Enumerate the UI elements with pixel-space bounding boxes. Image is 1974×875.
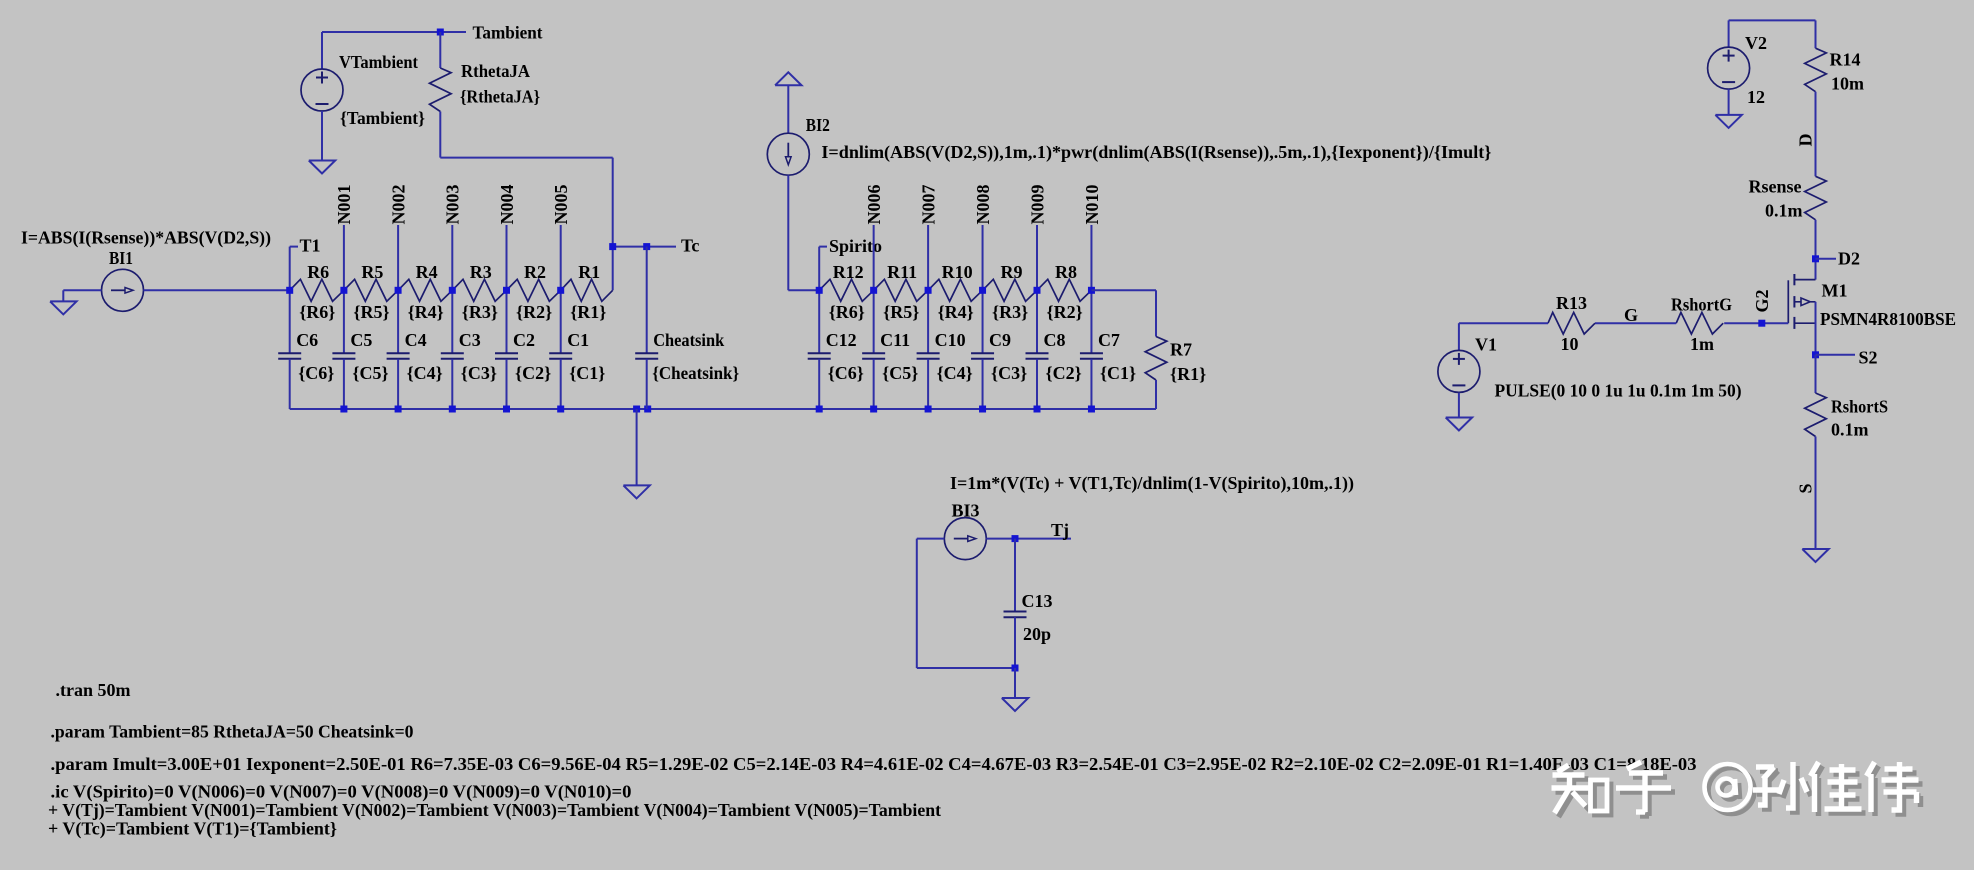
transistor M1 body arrow — [1794, 301, 1801, 303]
node junction row 0 — [286, 287, 293, 294]
svg-text:R6: R6 — [307, 262, 329, 282]
wire column C1 upper — [560, 290, 562, 353]
wire Spirito stub — [818, 247, 820, 291]
svg-text:{C1}: {C1} — [1100, 363, 1136, 383]
node junction row 1 — [340, 287, 347, 294]
capacitor C3 — [441, 352, 464, 354]
wire column C7 lower — [1090, 359, 1092, 409]
capacitor C10 — [917, 352, 940, 354]
wire BI3 left loop — [917, 538, 945, 540]
svg-text:{C4}: {C4} — [937, 363, 973, 383]
svg-text:N008: N008 — [973, 185, 993, 225]
wire stub node N004 — [506, 225, 508, 290]
current source BI2 — [767, 133, 809, 175]
transistor M1 channel segments — [1793, 274, 1795, 285]
svg-text:C10: C10 — [935, 330, 966, 350]
svg-text:R14: R14 — [1830, 50, 1861, 70]
wire ground stub below bus — [636, 409, 638, 485]
wire BI2 bottom lead to ladder 2 — [787, 175, 789, 290]
wire C13 top lead — [1014, 539, 1016, 612]
svg-text:C13: C13 — [1022, 591, 1053, 611]
svg-text:R8: R8 — [1055, 262, 1077, 282]
wire column C4 upper — [397, 290, 399, 353]
node junction row ladder2 — [1088, 287, 1095, 294]
node G2 junction — [1758, 320, 1765, 327]
resistor RthetaJA — [430, 68, 452, 112]
svg-text:VTambient: VTambient — [339, 52, 418, 72]
resistor R10 — [928, 279, 982, 301]
wire stub node N001 — [343, 225, 345, 290]
resistor Rsense — [1805, 176, 1827, 220]
voltage source VTambient — [301, 69, 343, 111]
svg-text:R2: R2 — [524, 262, 546, 282]
transistor M1 drain bar — [1794, 279, 1815, 281]
wire column C11 lower — [873, 359, 875, 409]
wire VTambient up lead — [321, 32, 323, 69]
wire column C8 lower — [1036, 359, 1038, 409]
wire column C9 upper — [982, 290, 984, 353]
svg-text:{Cheatsink}: {Cheatsink} — [652, 363, 739, 383]
svg-text:V1: V1 — [1475, 335, 1497, 355]
wire S2 stub — [1816, 354, 1856, 356]
ground below V2 — [1715, 115, 1741, 128]
svg-text:10m: 10m — [1831, 74, 1864, 94]
capacitor C9 — [971, 352, 994, 354]
ground below VTambient — [309, 161, 335, 174]
wire R14 top lead — [1815, 20, 1817, 48]
node junction at Cheatsink column — [643, 243, 650, 250]
wire column C12 upper — [818, 290, 820, 353]
svg-text:0.1m: 0.1m — [1765, 201, 1803, 221]
wire V1 to ground — [1458, 393, 1460, 418]
svg-text:N003: N003 — [443, 185, 463, 225]
svg-text:C1: C1 — [567, 330, 589, 350]
svg-text:{R3}: {R3} — [462, 302, 498, 322]
svg-text:N009: N009 — [1027, 185, 1047, 225]
node junction row 2 — [395, 287, 402, 294]
wire Tc row — [613, 246, 676, 248]
wire net D between R14 and Rsense — [1815, 92, 1817, 177]
svg-text:C2: C2 — [513, 330, 535, 350]
wire column C3 lower — [451, 359, 453, 409]
node junction bus ladder2 — [1034, 406, 1041, 413]
node junction bus ground tap — [633, 406, 640, 413]
wire stub node N010 — [1090, 225, 1092, 290]
svg-text:{C3}: {C3} — [991, 363, 1027, 383]
wire net S below RshortS — [1815, 437, 1817, 550]
svg-text:I=dnlim(ABS(V(D2,S)),1m,.1)*pw: I=dnlim(ABS(V(D2,S)),1m,.1)*pwr(dnlim(AB… — [821, 142, 1491, 163]
svg-text:M1: M1 — [1822, 281, 1848, 301]
svg-text:{R5}: {R5} — [883, 302, 919, 322]
node Tambient junction — [437, 29, 444, 36]
resistor R5 — [344, 279, 398, 301]
svg-text:C12: C12 — [826, 330, 857, 350]
svg-text:{R2}: {R2} — [516, 302, 552, 322]
wire stub node N009 — [1036, 225, 1038, 290]
wire column C8 upper — [1036, 290, 1038, 353]
wire stub node N002 — [397, 225, 399, 290]
svg-text:{R6}: {R6} — [299, 302, 335, 322]
svg-text:{R5}: {R5} — [353, 302, 389, 322]
svg-text:BI1: BI1 — [109, 248, 133, 268]
wire ground stub below C13 — [1014, 668, 1016, 698]
svg-text:C11: C11 — [880, 330, 910, 350]
wire stub node N007 — [927, 225, 929, 290]
svg-text:PSMN4R8100BSE: PSMN4R8100BSE — [1820, 309, 1956, 329]
node junction row ladder2 — [816, 287, 823, 294]
svg-text:R3: R3 — [470, 262, 492, 282]
transistor M1 source bar — [1794, 322, 1815, 324]
wire column C3 upper — [451, 290, 453, 353]
svg-text:C4: C4 — [405, 330, 427, 350]
node junction row 4 — [503, 287, 510, 294]
node junction bus — [395, 406, 402, 413]
capacitor C5 — [332, 352, 355, 354]
svg-text:RthetaJA: RthetaJA — [461, 61, 530, 81]
ground below bus — [623, 485, 649, 498]
node D2 junction — [1812, 255, 1819, 262]
capacitor C4 — [387, 352, 410, 354]
wire VTambient top rail to Tambient node — [322, 31, 466, 33]
svg-text:.param Tambient=85 RthetaJA=50: .param Tambient=85 RthetaJA=50 Cheatsink… — [51, 722, 414, 742]
wire column C10 lower — [927, 359, 929, 409]
transistor M1 gate bar — [1787, 280, 1789, 323]
wire T1 stub — [289, 247, 291, 291]
node junction row ladder2 — [870, 287, 877, 294]
svg-text:V2: V2 — [1745, 33, 1767, 53]
svg-text:{R2}: {R2} — [1047, 302, 1083, 322]
current source BI3 — [944, 518, 986, 560]
wire column C10 upper — [927, 290, 929, 353]
svg-text:{R4}: {R4} — [408, 302, 444, 322]
node junction below C13 — [1012, 665, 1019, 672]
svg-text:BI2: BI2 — [806, 115, 830, 135]
ground below C13 — [1002, 698, 1028, 711]
svg-text:Tj: Tj — [1051, 520, 1069, 540]
node junction row 3 — [449, 287, 456, 294]
capacitor C2 — [495, 352, 518, 354]
svg-text:D2: D2 — [1838, 249, 1860, 269]
resistor RshortS — [1805, 393, 1827, 437]
resistor R4 — [398, 279, 452, 301]
svg-text:N005: N005 — [551, 185, 571, 225]
resistor R8 — [1037, 279, 1091, 301]
wire V2 to ground — [1728, 89, 1730, 115]
svg-text:C7: C7 — [1098, 330, 1120, 350]
resistor R14 — [1805, 48, 1827, 91]
node junction bus ladder2 — [816, 406, 823, 413]
svg-text:C5: C5 — [350, 330, 372, 350]
wire RshortS top lead — [1815, 355, 1817, 393]
wire BI2 top lead — [787, 85, 789, 133]
wire BI3 output to Tj — [986, 538, 1071, 540]
svg-text:R4: R4 — [416, 262, 438, 282]
capacitor C8 — [1026, 352, 1049, 354]
resistor R7 — [1145, 337, 1167, 381]
wire gate to RshortG — [1724, 322, 1788, 324]
wire stub node N005 — [560, 225, 562, 290]
capacitor C6 — [278, 352, 301, 354]
svg-text:Tc: Tc — [681, 236, 699, 256]
wire column C5 upper — [343, 290, 345, 353]
svg-text:PULSE(0 10 0 1u 1u 0.1m 1m 50): PULSE(0 10 0 1u 1u 0.1m 1m 50) — [1495, 381, 1742, 402]
node junction row ladder2 — [1034, 287, 1041, 294]
svg-text:N006: N006 — [864, 185, 884, 225]
svg-text:{Tambient}: {Tambient} — [340, 108, 425, 128]
wire BI1 left to ground elbow — [63, 289, 101, 291]
svg-text:S: S — [1795, 483, 1815, 493]
wire VTambient to ground — [321, 111, 323, 161]
wire column C11 upper — [873, 290, 875, 353]
svg-text:N001: N001 — [334, 185, 354, 225]
wire Cheatsink column upper — [646, 247, 648, 354]
wire RthetaJA top lead — [439, 32, 441, 68]
node junction row ladder2 — [925, 287, 932, 294]
resistor R9 — [983, 279, 1037, 301]
svg-text:I=ABS(I(Rsense))*ABS(V(D2,S)): I=ABS(I(Rsense))*ABS(V(D2,S)) — [21, 228, 271, 249]
wire column C6 lower — [289, 359, 291, 409]
svg-text:G2: G2 — [1752, 289, 1772, 312]
svg-text:{C5}: {C5} — [882, 363, 918, 383]
flipped ground above BI2 — [775, 72, 801, 85]
ground below V1 — [1446, 418, 1472, 431]
svg-text:Rsense: Rsense — [1749, 177, 1802, 197]
svg-text:{C2}: {C2} — [1046, 363, 1082, 383]
svg-text:{C6}: {C6} — [828, 363, 864, 383]
watermark Zhihu @Sun Jiawei — [1552, 762, 1919, 813]
svg-text:C6: C6 — [296, 330, 318, 350]
wire stub node N006 — [873, 225, 875, 290]
svg-text:{C1}: {C1} — [569, 363, 605, 383]
svg-text:Cheatsink: Cheatsink — [653, 330, 724, 350]
wire Rsense to D2 — [1815, 220, 1817, 280]
svg-text:+ V(Tc)=Tambient V(T1)={Tambie: + V(Tc)=Tambient V(T1)={Tambient} — [48, 819, 337, 840]
svg-text:{R1}: {R1} — [1170, 364, 1206, 384]
svg-text:{C5}: {C5} — [352, 363, 388, 383]
capacitor C12 — [808, 352, 831, 354]
wire stub node N003 — [451, 225, 453, 290]
wire R13 to RshortG with net G — [1595, 322, 1676, 324]
capacitor C11 — [862, 352, 885, 354]
svg-text:R13: R13 — [1556, 293, 1587, 313]
svg-text:C9: C9 — [989, 330, 1011, 350]
svg-text:N002: N002 — [388, 185, 408, 225]
wire column C1 lower — [560, 359, 562, 409]
svg-text:R1: R1 — [578, 262, 600, 282]
node junction bus ladder2 — [1088, 406, 1095, 413]
voltage source V1 — [1438, 350, 1480, 392]
svg-text:.param Imult=3.00E+01 Iexponen: .param Imult=3.00E+01 Iexponent=2.50E-01… — [51, 754, 1697, 774]
svg-text:T1: T1 — [300, 236, 321, 256]
node junction bus ladder2 — [925, 406, 932, 413]
svg-text:{C2}: {C2} — [515, 363, 551, 383]
wire M1 source column — [1815, 302, 1817, 355]
capacitor Cheatsink — [635, 352, 658, 354]
node junction bus ladder2 — [979, 406, 986, 413]
svg-text:.tran 50m: .tran 50m — [56, 680, 131, 700]
capacitor C7 — [1080, 352, 1103, 354]
svg-text:Tambient: Tambient — [473, 23, 543, 43]
svg-text:{RthetaJA}: {RthetaJA} — [460, 87, 540, 107]
svg-text:{C6}: {C6} — [298, 363, 334, 383]
resistor R6 — [290, 279, 344, 301]
wire C13 bottom lead — [1014, 617, 1016, 668]
node Tj junction — [1012, 535, 1019, 542]
node junction bus — [449, 406, 456, 413]
wire D2 stub — [1816, 258, 1837, 260]
wire column C2 upper — [506, 290, 508, 353]
watermark shadow — [1556, 766, 1923, 817]
svg-text:{C3}: {C3} — [461, 363, 497, 383]
svg-text:R7: R7 — [1170, 340, 1192, 360]
wire V2 top rail — [1729, 19, 1816, 21]
resistor R12 — [819, 279, 873, 301]
node junction bus — [340, 406, 347, 413]
resistor R11 — [874, 279, 928, 301]
ground at BI1 — [50, 301, 76, 314]
resistor R1 — [561, 279, 613, 301]
svg-text:R9: R9 — [1001, 262, 1023, 282]
capacitor C1 — [549, 352, 572, 354]
svg-text:C8: C8 — [1044, 330, 1066, 350]
wire R7 bottom lead — [1155, 380, 1157, 409]
wire column C2 lower — [506, 359, 508, 409]
svg-text:C3: C3 — [459, 330, 481, 350]
wire column C5 lower — [343, 359, 345, 409]
svg-text:I=1m*(V(Tc) + V(T1,Tc)/dnlim(1: I=1m*(V(Tc) + V(T1,Tc)/dnlim(1-V(Spirito… — [950, 473, 1354, 494]
node junction bus — [503, 406, 510, 413]
wire V1 to R13 — [1458, 323, 1460, 350]
svg-text:R10: R10 — [942, 262, 973, 282]
node S2 junction — [1812, 351, 1819, 358]
svg-text:{R1}: {R1} — [570, 302, 606, 322]
svg-text:{R4}: {R4} — [938, 302, 974, 322]
wire bottom bus — [290, 408, 1156, 410]
current source BI1 — [102, 269, 144, 311]
svg-text:{R3}: {R3} — [992, 302, 1028, 322]
svg-text:12: 12 — [1747, 87, 1765, 107]
svg-text:R12: R12 — [833, 262, 864, 282]
svg-text:D: D — [1795, 134, 1815, 147]
node junction bus cheatsink — [644, 406, 651, 413]
wire Cheatsink column lower — [646, 359, 648, 409]
svg-text:R5: R5 — [361, 262, 383, 282]
ground below RshortS — [1802, 549, 1828, 562]
wire RthetaJA bottom lead and elbow to Tc column — [439, 112, 441, 158]
capacitor C13 — [1004, 611, 1027, 613]
svg-text:N004: N004 — [497, 185, 517, 225]
wire column C4 lower — [397, 359, 399, 409]
wire column C9 lower — [982, 359, 984, 409]
svg-text:R11: R11 — [887, 262, 917, 282]
svg-text:RshortG: RshortG — [1671, 295, 1732, 315]
svg-text:20p: 20p — [1023, 624, 1051, 644]
svg-text:S2: S2 — [1859, 348, 1878, 368]
svg-text:N010: N010 — [1082, 185, 1102, 225]
node junction at R1 top — [609, 243, 616, 250]
svg-text:1m: 1m — [1690, 334, 1714, 354]
svg-text:N007: N007 — [918, 185, 938, 225]
wire stub node N008 — [982, 225, 984, 290]
svg-text:10: 10 — [1561, 334, 1579, 354]
wire BI1 output to ladder — [144, 289, 290, 291]
node junction row 5 — [557, 287, 564, 294]
svg-text:G: G — [1624, 305, 1638, 325]
svg-text:{R6}: {R6} — [829, 302, 865, 322]
svg-text:{C4}: {C4} — [407, 363, 443, 383]
resistor R13 — [1548, 312, 1595, 334]
node junction bus ladder2 — [870, 406, 877, 413]
wire R7 top lead — [1091, 289, 1156, 291]
wire column C7 upper — [1090, 290, 1092, 353]
svg-text:0.1m: 0.1m — [1831, 420, 1869, 440]
node junction row ladder2 — [979, 287, 986, 294]
svg-text:RshortS: RshortS — [1831, 397, 1888, 417]
voltage source V2 — [1708, 47, 1750, 89]
node junction bus — [557, 406, 564, 413]
resistor R2 — [507, 279, 561, 301]
resistor RshortG — [1676, 312, 1723, 334]
resistor R3 — [452, 279, 506, 301]
wire column C6 upper — [289, 290, 291, 353]
wire column C12 lower — [818, 359, 820, 409]
